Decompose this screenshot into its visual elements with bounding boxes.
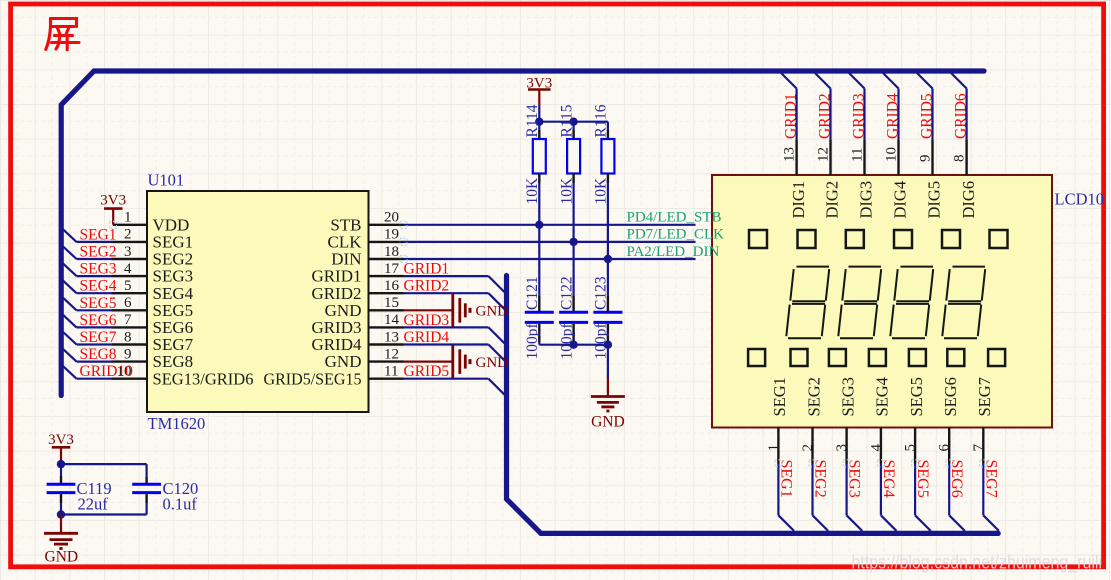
- svg-text:GND: GND: [476, 355, 509, 371]
- U101 pin 5 (SEG4): [112, 278, 194, 303]
- LCD10 pin 13 (DIG1): [782, 140, 808, 219]
- svg-text:SEG13/GRID6: SEG13/GRID6: [153, 369, 254, 388]
- junction rail/R114: [535, 118, 543, 126]
- wire net SEG6 (LCD bottom): [948, 464, 950, 516]
- svg-text:TM1620: TM1620: [148, 414, 206, 433]
- svg-text:SEG7: SEG7: [982, 460, 999, 498]
- svg-text:R116: R116: [593, 104, 610, 137]
- LCD segment square bottom 6: [947, 349, 964, 366]
- svg-text:4: 4: [124, 261, 132, 277]
- U101 pin 4 (SEG3): [112, 261, 194, 286]
- svg-text:PA2/LED_DIN: PA2/LED_DIN: [627, 244, 720, 260]
- wire net SEG6 (U101 pin 7): [77, 326, 113, 328]
- bus entry GRID10: [62, 365, 77, 379]
- bus entry GRID4: [489, 345, 505, 361]
- svg-text:5: 5: [124, 278, 132, 294]
- wire net SEG4 (U101 pin 5): [77, 292, 113, 294]
- svg-text:DIG6: DIG6: [959, 181, 978, 219]
- junction rail/R115: [569, 118, 577, 126]
- U101 pin 6 (SEG5): [112, 295, 194, 320]
- svg-text:SEG4: SEG4: [880, 460, 897, 498]
- U101 pin 11 (GRID5/SEG15): [264, 364, 404, 389]
- junction 3V3/C119 top: [57, 460, 65, 468]
- wire C122 to bottom rail: [572, 342, 574, 345]
- bus entry SEG2: [62, 246, 77, 260]
- svg-text:C122: C122: [558, 276, 575, 310]
- resistor R114: [533, 122, 546, 183]
- LCD10 pin 11 (DIG3): [850, 140, 876, 219]
- svg-text:11: 11: [384, 364, 398, 380]
- svg-text:10: 10: [884, 147, 900, 162]
- bus: middle vertical + bottom horizontal bus: [507, 276, 999, 534]
- bus entry SEG7: [62, 331, 77, 345]
- LCD segment square bottom 5: [909, 349, 926, 366]
- svg-text:LCD10: LCD10: [1055, 190, 1105, 209]
- capacitor C122: [559, 296, 588, 342]
- bus entry SEG3 (bottom bus): [847, 515, 863, 531]
- bus entry SEG6 (bottom bus): [949, 515, 965, 531]
- LCD10 pin 7 (SEG7): [971, 377, 994, 463]
- LCD digit square top 3: [846, 230, 864, 248]
- bus entry GRID1: [489, 276, 505, 292]
- wire C121 to bottom rail: [538, 342, 540, 345]
- svg-text:DIG1: DIG1: [789, 181, 808, 219]
- bus entry GRID2: [489, 293, 505, 309]
- LCD digit square top 6: [990, 230, 1008, 248]
- bus entry SEG2 (bottom bus): [813, 515, 829, 531]
- LCD10 pin 12 (DIG2): [816, 140, 842, 219]
- wire net GRID2 (LCD top): [829, 89, 831, 141]
- svg-text:GRID6: GRID6: [953, 93, 970, 139]
- svg-text:13: 13: [384, 329, 399, 345]
- svg-text:SEG1: SEG1: [80, 226, 117, 243]
- svg-text:DIG3: DIG3: [857, 181, 876, 219]
- svg-text:GRID10: GRID10: [80, 363, 134, 380]
- U101 pin 7 (SEG6): [112, 312, 194, 337]
- U101 pin 14 (GRID3): [311, 312, 403, 337]
- svg-text:GRID4: GRID4: [404, 329, 450, 346]
- svg-text:SEG6: SEG6: [948, 460, 965, 498]
- U101 pin 10 (SEG13/GRID6): [112, 364, 254, 389]
- svg-text:GRID1: GRID1: [404, 261, 450, 278]
- LCD digit square top 1: [749, 230, 767, 248]
- svg-text:13: 13: [782, 147, 798, 162]
- bus entry SEG3: [62, 263, 77, 277]
- wire net SEG5 (LCD bottom): [914, 464, 916, 516]
- wire net GRID10 (U101 pin 10): [77, 378, 113, 380]
- svg-text:7: 7: [124, 312, 132, 328]
- wire rail to ground: [607, 345, 609, 378]
- power 3V3 (decoupling): [48, 432, 74, 464]
- bus entry SEG1: [62, 228, 77, 242]
- wire net GRID3 (U101): [404, 326, 489, 328]
- svg-text:12: 12: [816, 147, 832, 162]
- svg-text:SEG1: SEG1: [777, 460, 794, 498]
- title text 屏: [46, 19, 79, 50]
- svg-text:GRID3: GRID3: [404, 312, 450, 329]
- svg-text:3V3: 3V3: [100, 193, 126, 209]
- svg-text:GRID2: GRID2: [817, 93, 834, 139]
- svg-text:8: 8: [952, 155, 968, 163]
- bus entry SEG6: [62, 314, 77, 328]
- wire C123 to bottom rail: [607, 342, 609, 345]
- svg-text:SEG5: SEG5: [914, 460, 931, 498]
- junction rail/C122: [569, 341, 577, 349]
- LCD module LCD10 body: [712, 175, 1052, 428]
- svg-text:6: 6: [937, 444, 953, 452]
- svg-text:SEG1: SEG1: [770, 377, 789, 416]
- svg-text:C123: C123: [593, 276, 610, 310]
- svg-text:PD7/LED_CLK: PD7/LED_CLK: [627, 227, 725, 243]
- svg-text:https://blog.csdn.net/zhuimeng: https://blog.csdn.net/zhuimeng_ruili: [852, 553, 1103, 574]
- compile marks: [110, 221, 987, 466]
- LCD10 pin 6 (SEG6): [937, 377, 960, 463]
- svg-text:SEG8: SEG8: [80, 346, 117, 363]
- junction C119/GND: [57, 510, 65, 518]
- svg-text:GND: GND: [476, 304, 509, 320]
- svg-text:SEG5: SEG5: [907, 377, 926, 416]
- svg-text:14: 14: [384, 312, 400, 328]
- svg-text:GND: GND: [45, 549, 79, 566]
- LCD10 pin 8 (DIG6): [952, 140, 978, 219]
- wire net GRID4 (LCD top): [897, 89, 899, 141]
- ground GND (U101 pin 15): [404, 294, 509, 327]
- svg-text:DIG5: DIG5: [925, 181, 944, 219]
- U101 pin 13 (GRID4): [311, 329, 403, 354]
- wire net SEG4 (LCD bottom): [880, 464, 882, 516]
- LCD digit square top 5: [942, 230, 960, 248]
- U101 pin 3 (SEG2): [112, 244, 194, 269]
- junction STB row: [535, 221, 543, 229]
- LCD10 pin 2 (SEG2): [800, 377, 823, 463]
- wire 3V3 stub to rail: [538, 106, 540, 122]
- wire net SEG7 (LCD bottom): [982, 464, 984, 516]
- svg-text:20: 20: [384, 210, 399, 226]
- svg-text:SEG4: SEG4: [80, 278, 117, 295]
- wire top rail C119-C120: [61, 464, 147, 477]
- 7-segment digit 1: [786, 267, 829, 339]
- wire net GRID2 (U101): [404, 292, 489, 294]
- bus entry SEG5: [62, 297, 77, 311]
- LCD10 pin 1 (SEG1): [766, 377, 789, 463]
- svg-text:C121: C121: [524, 276, 541, 310]
- U101 pin 18 (DIN): [331, 244, 403, 269]
- bus entry SEG8: [62, 348, 77, 362]
- svg-text:12: 12: [384, 346, 399, 362]
- svg-text:SEG4: SEG4: [873, 377, 892, 416]
- bus entry GRID4 (top bus): [883, 73, 899, 89]
- svg-text:0.1uf: 0.1uf: [163, 495, 198, 514]
- ground GND (decoupling): [44, 515, 78, 566]
- U101 pin 16 (GRID2): [311, 278, 403, 303]
- svg-text:R115: R115: [558, 104, 575, 137]
- wire R116 bottom to C123: [607, 183, 609, 296]
- svg-text:GRID5/SEG15: GRID5/SEG15: [264, 369, 362, 388]
- wire CLK net: [404, 241, 696, 243]
- svg-text:2: 2: [124, 227, 132, 243]
- wire net GRID4 (U101): [404, 343, 489, 345]
- svg-text:1: 1: [124, 210, 132, 226]
- svg-text:9: 9: [124, 346, 132, 362]
- LCD segment square bottom 1: [748, 349, 765, 366]
- 7-segment digit 2: [838, 267, 881, 339]
- svg-text:3: 3: [124, 244, 132, 260]
- wire net SEG2 (LCD bottom): [811, 464, 813, 516]
- svg-text:SEG5: SEG5: [80, 295, 117, 312]
- LCD digit square top 4: [894, 230, 912, 248]
- svg-text:SEG2: SEG2: [80, 244, 117, 261]
- capacitor C120: [132, 477, 161, 515]
- bus entry GRID6 (top bus): [951, 73, 967, 89]
- svg-text:SEG2: SEG2: [812, 460, 829, 498]
- svg-text:SEG3: SEG3: [846, 460, 863, 498]
- svg-text:U101: U101: [148, 171, 185, 190]
- LCD10 pin 5 (SEG5): [903, 377, 926, 463]
- U101 pin 1 (VDD): [113, 210, 189, 235]
- LCD segment square bottom 2: [791, 349, 808, 366]
- svg-text:GRID1: GRID1: [783, 93, 800, 139]
- wire net SEG2 (U101 pin 3): [77, 258, 113, 260]
- bus entry SEG4: [62, 280, 77, 294]
- svg-text:GRID5: GRID5: [919, 93, 936, 139]
- LCD10 pin 10 (DIG4): [884, 140, 910, 219]
- wire net SEG1 (LCD bottom): [777, 464, 779, 516]
- svg-text:3: 3: [834, 444, 850, 452]
- junction CLK row: [569, 238, 577, 246]
- LCD10 pin 3 (SEG3): [834, 377, 857, 463]
- svg-text:GRID4: GRID4: [885, 93, 902, 139]
- wire net GRID1 (U101): [404, 275, 489, 277]
- U101 pin 17 (GRID1): [311, 261, 403, 286]
- U101 pin 12 (GND): [325, 346, 404, 371]
- wire capacitor bottom rail: [539, 344, 608, 346]
- capacitor C121: [525, 296, 554, 342]
- wire STB net: [404, 224, 696, 226]
- svg-text:R114: R114: [524, 104, 541, 137]
- svg-text:SEG7: SEG7: [80, 329, 117, 346]
- U101 pin 9 (SEG8): [112, 346, 194, 371]
- ground GND (RC rail): [591, 378, 625, 431]
- IC U101 TM1620 body: [147, 191, 369, 412]
- bus entry SEG5 (bottom bus): [915, 515, 931, 531]
- LCD segment square bottom 3: [829, 349, 846, 366]
- svg-text:8: 8: [124, 329, 132, 345]
- bus entry SEG7 (bottom bus): [983, 515, 999, 531]
- U101 pin 15 (GND): [325, 295, 404, 320]
- svg-text:GND: GND: [591, 414, 625, 431]
- svg-text:GRID2: GRID2: [404, 278, 450, 295]
- bus entry GRID1 (top bus): [781, 73, 797, 89]
- power 3V3 (pull-up rail): [526, 75, 552, 106]
- LCD10 pin 9 (DIG5): [918, 140, 944, 219]
- U101 pin 2 (SEG1): [112, 227, 194, 252]
- LCD10 pin 4 (SEG4): [868, 377, 891, 463]
- svg-text:18: 18: [384, 244, 399, 260]
- svg-text:17: 17: [384, 261, 400, 277]
- svg-text:SEG6: SEG6: [80, 312, 117, 329]
- svg-text:100pf: 100pf: [524, 323, 541, 360]
- svg-text:DIG2: DIG2: [823, 181, 842, 219]
- svg-text:SEG3: SEG3: [838, 377, 857, 416]
- junction rail/C123: [604, 341, 612, 349]
- svg-text:SEG2: SEG2: [804, 377, 823, 416]
- bus: left vertical + top horizontal bus: [61, 71, 984, 396]
- svg-text:15: 15: [384, 295, 399, 311]
- svg-text:GRID5: GRID5: [404, 363, 450, 380]
- wire net GRID6 (LCD top): [965, 89, 967, 141]
- LCD segment square bottom 4: [869, 349, 886, 366]
- svg-text:9: 9: [918, 155, 934, 163]
- svg-text:PD4/LED_STB: PD4/LED_STB: [627, 210, 722, 226]
- bus entry GRID3 (top bus): [849, 73, 865, 89]
- U101 pin 8 (SEG7): [112, 329, 194, 354]
- power 3V3 (U101 pin 1): [100, 193, 126, 225]
- wire net SEG5 (U101 pin 6): [77, 309, 113, 311]
- wire net GRID5 (U101): [404, 378, 489, 380]
- svg-text:GRID3: GRID3: [851, 93, 868, 139]
- capacitor C123: [593, 296, 622, 342]
- wire net SEG3 (U101 pin 4): [77, 275, 113, 277]
- svg-text:22uf: 22uf: [78, 495, 109, 514]
- svg-text:3V3: 3V3: [48, 432, 74, 448]
- svg-text:11: 11: [850, 148, 866, 162]
- wire net SEG8 (U101 pin 9): [77, 361, 113, 363]
- wire net SEG7 (U101 pin 8): [77, 343, 113, 345]
- bus entry GRID3: [489, 327, 505, 343]
- bus entry GRID5: [489, 379, 505, 395]
- bus entry SEG4 (bottom bus): [881, 515, 897, 531]
- bus entry SEG1 (bottom bus): [778, 515, 794, 531]
- svg-text:5: 5: [903, 444, 919, 452]
- svg-text:SEG7: SEG7: [975, 377, 994, 416]
- svg-text:4: 4: [868, 444, 884, 452]
- junction DIN row: [604, 255, 612, 263]
- svg-text:SEG6: SEG6: [941, 377, 960, 416]
- resistor R115: [567, 122, 580, 183]
- ground GND (U101 pin 12): [404, 345, 509, 378]
- svg-text:2: 2: [800, 444, 816, 452]
- resistor R116: [601, 122, 614, 183]
- svg-text:7: 7: [971, 444, 987, 452]
- 7-segment digit 3: [890, 267, 933, 339]
- 7-segment digit 4: [942, 267, 985, 339]
- bus entry GRID5 (top bus): [917, 73, 933, 89]
- wire net SEG3 (LCD bottom): [845, 464, 847, 516]
- svg-text:SEG3: SEG3: [80, 261, 117, 278]
- svg-text:16: 16: [384, 278, 400, 294]
- svg-text:1: 1: [766, 444, 782, 452]
- capacitor C119: [47, 464, 76, 514]
- wire R115 bottom to C122: [572, 183, 574, 296]
- wire DIN net: [404, 258, 696, 260]
- svg-text:6: 6: [124, 295, 132, 311]
- wire resistor top rail: [539, 121, 608, 123]
- U101 pin 20 (STB): [330, 210, 403, 235]
- LCD digit square top 2: [798, 230, 816, 248]
- U101 pin 19 (CLK): [328, 227, 404, 252]
- LCD segment square bottom 7: [988, 349, 1005, 366]
- wire net GRID5 (LCD top): [931, 89, 933, 141]
- svg-text:DIG4: DIG4: [891, 181, 910, 219]
- wire R114 bottom to C121: [538, 183, 540, 296]
- wire net GRID3 (LCD top): [863, 89, 865, 141]
- svg-text:19: 19: [384, 227, 399, 243]
- bus entry GRID2 (top bus): [815, 73, 831, 89]
- wire bottom rail C119-C120: [61, 513, 147, 515]
- wire net SEG1 (U101 pin 2): [77, 241, 113, 243]
- wire net GRID1 (LCD top): [795, 89, 797, 141]
